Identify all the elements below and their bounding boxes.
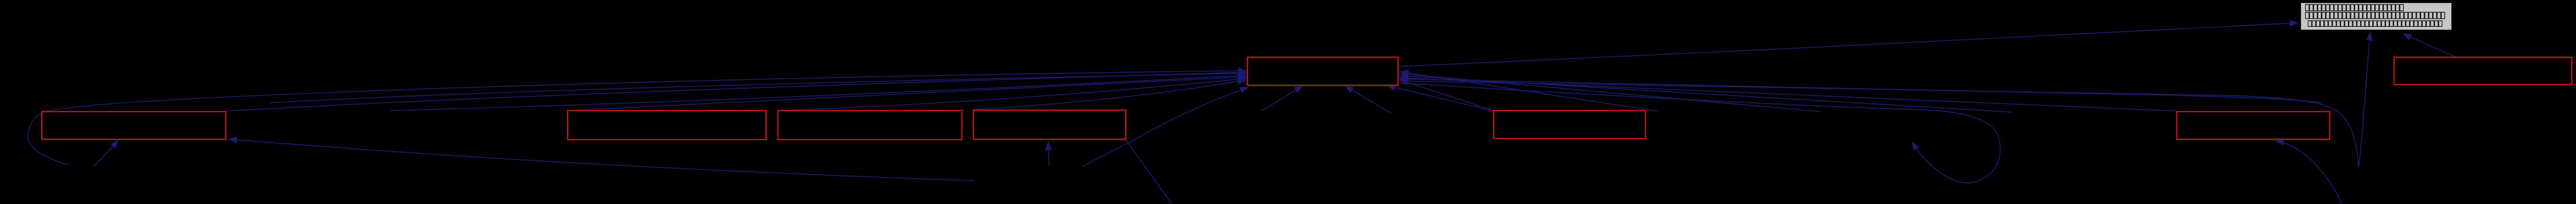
node G grey current-file node xyxy=(2301,3,2452,30)
wire edge E4 from hidden node top into C xyxy=(390,75,1246,111)
wire edge E26 clipped line from node B4 bottom-right corner xyxy=(1126,140,1172,204)
wire edge E7 from node B4 top-left corner into C xyxy=(975,80,1246,110)
wire edge E2 from node B1 top-right corner into C xyxy=(226,72,1246,111)
wire edge E8 curve from hidden node below into C bottom-left corner xyxy=(1082,87,1248,167)
wire edge E22 from clipped bottom into node B7 bottom edge xyxy=(2275,141,2342,204)
wire edge E10 from hidden node into C bottom edge xyxy=(1345,86,1391,114)
wire edge E16 sweeping from hidden node at right into C right edge xyxy=(1400,79,2322,103)
node G tofu glyph row 1 xyxy=(2306,5,2403,11)
wire edge E1 loop from hidden node around node B1 into central node C xyxy=(28,71,1246,165)
wire edge E23 from hidden node into node B1 bottom edge xyxy=(94,140,118,166)
node B3 xyxy=(778,111,962,140)
node B2 xyxy=(567,111,766,140)
wire edge E24 long line from hidden node into node B1 right edge xyxy=(229,139,974,181)
wire edge E12 from hidden node into C right edge xyxy=(1400,72,1657,111)
node B6 xyxy=(1494,111,1645,139)
wire edge E25 from hidden node below into node B4 bottom edge xyxy=(1048,142,1049,167)
wire edge E15 from node B7 top-left corner into C right edge xyxy=(1400,78,2178,111)
wire edge E19 hook from C right side looping into hidden node bottom-right xyxy=(1400,83,2000,183)
wire edge E21 long line from C into grey node G left edge xyxy=(1399,23,2298,66)
node G tofu glyph row 2 xyxy=(2306,12,2445,19)
wire edge E3 from hidden node into C xyxy=(270,73,1246,103)
node B1 xyxy=(42,112,226,139)
wire edge E6 from node B3 top-left corner into C xyxy=(778,78,1246,111)
wire edge E5 from node B2 top-left corner into C xyxy=(567,77,1246,111)
node G tofu glyph row 3 xyxy=(2308,21,2442,26)
wire edge E14 from hidden node into C right edge xyxy=(1400,76,2012,112)
node B8 xyxy=(2394,57,2572,85)
wire edge E20 from node B8 top into grey node G bottom xyxy=(2403,34,2456,57)
node C central xyxy=(1247,57,1398,85)
wire edge E13 from hidden node into C right edge xyxy=(1400,74,1820,112)
wire edge E17 sweep from C area down then rising into grey node G bottom xyxy=(1400,32,2370,167)
wire edge E11a from node B6 top-left corner into C right edge xyxy=(1400,80,1494,111)
wire edge E11b from node B6 top edge into C bottom-right corner xyxy=(1387,86,1494,112)
node B4 xyxy=(973,110,1126,139)
node B7 xyxy=(2177,112,2330,139)
wire edge E9 from hidden node into C bottom edge xyxy=(1262,86,1303,111)
